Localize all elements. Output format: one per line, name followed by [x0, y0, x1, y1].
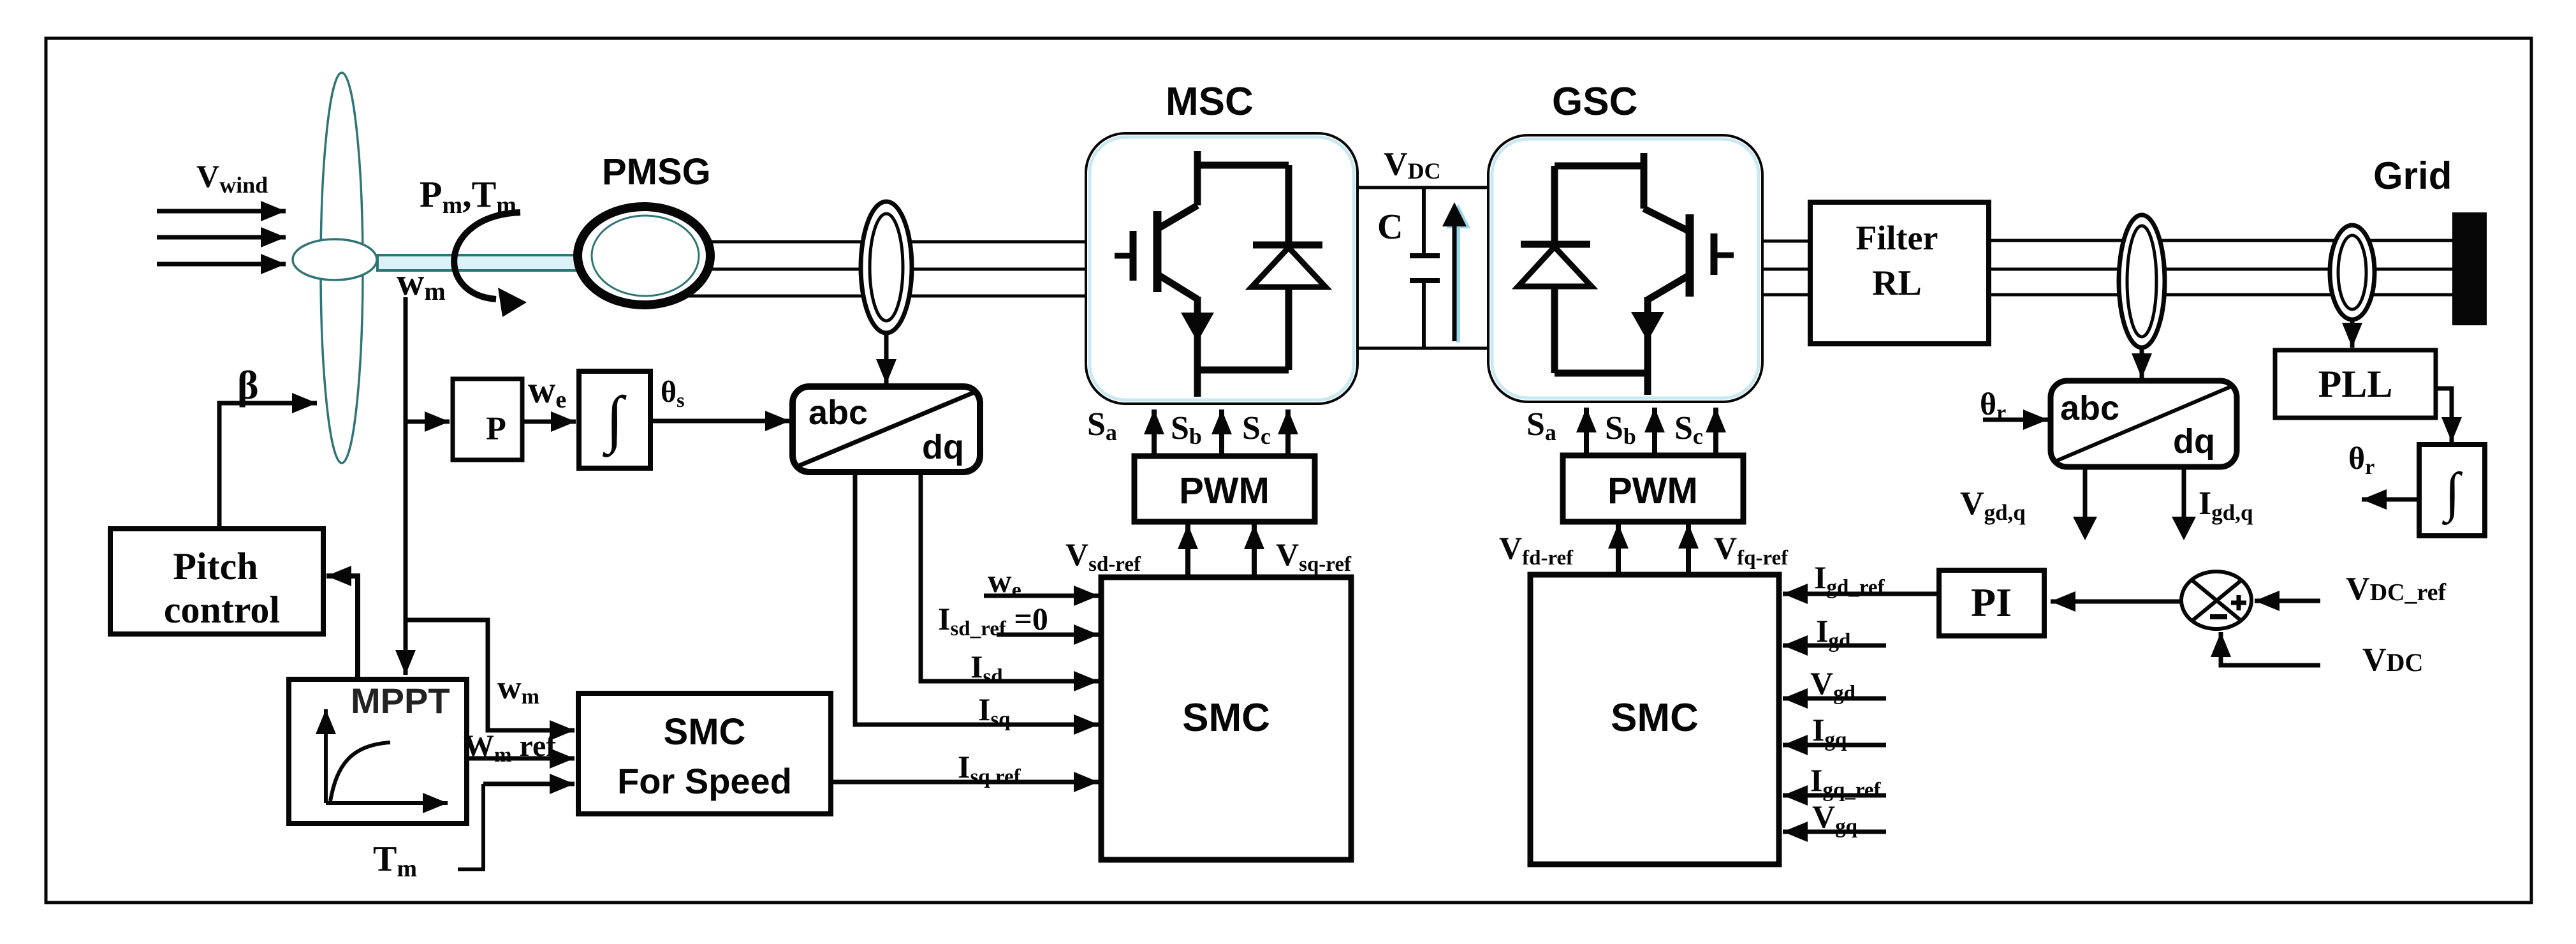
svg-text:control: control	[164, 589, 280, 631]
svg-text:dq: dq	[922, 428, 964, 466]
svg-text:abc: abc	[809, 394, 868, 432]
svg-text:PWM: PWM	[1179, 470, 1270, 512]
svg-text:RL: RL	[1872, 263, 1922, 303]
svg-text:∫: ∫	[602, 383, 627, 457]
svg-text:MSC: MSC	[1166, 80, 1254, 124]
svg-text:dq: dq	[2173, 422, 2215, 461]
svg-text:PWM: PWM	[1607, 470, 1698, 512]
svg-text:Grid: Grid	[2373, 154, 2452, 197]
svg-text:C: C	[1377, 207, 1403, 247]
svg-text:SMC: SMC	[664, 711, 746, 753]
svg-text:PI: PI	[1971, 580, 2012, 625]
svg-text:abc: abc	[2060, 389, 2119, 427]
svg-text:Filter: Filter	[1856, 219, 1938, 257]
svg-text:MPPT: MPPT	[351, 681, 450, 721]
svg-text:SMC: SMC	[1611, 696, 1699, 740]
svg-text:P: P	[486, 411, 506, 447]
svg-text:For Speed: For Speed	[617, 761, 792, 801]
svg-text:β: β	[237, 362, 259, 408]
svg-text:Pitch: Pitch	[173, 545, 258, 587]
svg-text:PMSG: PMSG	[602, 151, 711, 193]
svg-text:SMC: SMC	[1182, 696, 1270, 740]
svg-text:PLL: PLL	[2318, 363, 2393, 405]
svg-text:GSC: GSC	[1552, 80, 1637, 124]
